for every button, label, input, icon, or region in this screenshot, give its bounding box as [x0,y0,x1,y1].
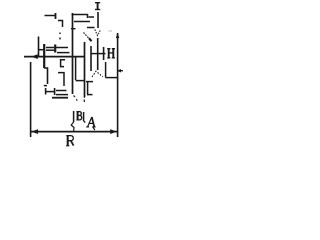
shaft upper line [56,47,68,49]
label R [66,136,73,146]
right top arrowhead [116,33,119,39]
label H [107,49,115,58]
diagonal leader with arrow [84,33,90,40]
equals upper [46,47,54,49]
right extension line [117,33,119,137]
small dot on spine [71,28,76,30]
H tick [103,47,105,60]
arrowhead of I leader (dotted V) [95,30,101,36]
label I [95,3,100,10]
right body foot dots [83,100,85,103]
label B left bar [73,111,75,122]
top-left tick line [45,15,56,17]
left extension line [30,62,32,137]
right mid arrow blob [118,70,123,72]
lower hub foot dash [44,85,47,87]
bold tick left [43,44,45,68]
spine vertical [72,13,74,94]
H dimension line [91,53,106,55]
right body vertical [84,42,86,97]
bold tick right [54,45,56,53]
bottom right arrowhead [110,129,117,134]
lower shaft upper line [56,90,67,92]
left flange vertical [38,37,40,57]
lower hub tick right [54,88,56,95]
B right bar foot [84,121,86,123]
top-left tick [55,13,57,19]
lower shaft lower line [56,94,68,96]
lower hub tick left [45,88,47,95]
H extension vertical [97,38,99,70]
lower corner [58,73,64,86]
top hub upper edge [72,15,88,19]
housing step vertical [105,62,107,78]
A leader [93,127,95,131]
label B right bar [83,112,85,121]
main centerline [24,56,85,58]
right lower dash [87,27,95,29]
B leader zigzag [71,122,74,131]
leader line from I [97,12,99,28]
equals lower [46,49,54,51]
right bracket bottom [87,94,93,96]
spine foot dot [74,96,76,98]
mid vertical [90,46,92,71]
right bracket top [86,81,93,83]
bottom left arrowhead [31,129,38,134]
right upper dash [89,16,95,18]
dotted caret [92,71,103,77]
small bracket [61,60,65,67]
housing step horizontal [106,77,118,79]
flange connector [39,49,44,51]
shaft lower line [57,52,70,54]
small dot below [76,99,77,100]
bottom dimension line R [31,131,117,133]
dashed centerline dots [59,33,61,40]
right bracket [87,82,89,95]
inner sleeve vertical [75,57,77,80]
stepped vertical [44,68,47,84]
top-left corner bracket [58,21,63,28]
sleeve bottom [76,80,85,82]
top hub lower edge [74,21,90,23]
faint mark right [109,30,113,32]
main line arrowhead [31,54,38,59]
lower hub mid line [46,91,54,93]
lower shaft bottom line [52,97,68,99]
label A [86,117,95,127]
label B [76,112,81,120]
